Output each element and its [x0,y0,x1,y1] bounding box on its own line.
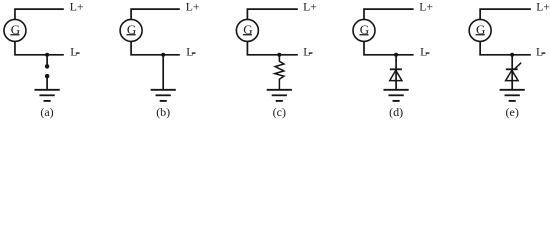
svg-text:L: L [420,45,427,58]
svg-text:L: L [70,45,77,58]
svg-text:L: L [303,45,310,58]
svg-text:(c): (c) [273,105,286,119]
svg-text:L: L [186,45,193,58]
svg-text:L+: L+ [536,1,550,14]
svg-text:(a): (a) [40,105,53,119]
svg-text:(d): (d) [389,105,403,119]
svg-text:L: L [536,45,543,58]
svg-text:(e): (e) [506,105,519,119]
svg-text:(b): (b) [156,105,170,119]
svg-text:L+: L+ [303,1,317,14]
svg-text:L+: L+ [70,1,84,14]
svg-text:L+: L+ [186,1,200,14]
svg-text:L+: L+ [419,1,433,14]
